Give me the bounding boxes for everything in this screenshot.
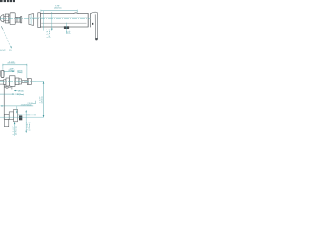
drop line below flange: [11, 86, 13, 89]
dim line 115: [3, 64, 27, 66]
body end rings: [88, 13, 90, 27]
small protrusion below right: [8, 86, 11, 87]
small collar: [4, 80, 7, 85]
second collar: [6, 78, 10, 86]
escutcheon front: [10, 76, 16, 87]
hex nut: [5, 14, 9, 23]
dim line 92: [4, 70, 14, 72]
svg-text:(200mm): (200mm): [54, 7, 62, 9]
svg-text:2 3/4"(70mm): 2 3/4"(70mm): [21, 104, 32, 106]
svg-text:(35mm): (35mm): [42, 96, 44, 103]
leader line to thread label: [2, 27, 12, 49]
centerline top drawing: [0, 18, 91, 20]
svg-text:(13mm): (13mm): [17, 72, 23, 74]
cup nut: [29, 14, 34, 26]
block leader dim: [65, 23, 67, 34]
leader start dark segment: [1, 26, 2, 29]
body front: [15, 78, 19, 85]
body inner light line: [29, 16, 87, 18]
body inner dark line: [41, 22, 86, 24]
svg-text:(38mm): (38mm): [16, 126, 18, 135]
handle tip: [95, 38, 98, 40]
r3: [14, 109, 18, 121]
vertical dim C between centerlines: [36, 80, 44, 82]
hook left bar emphasis: [0, 71, 2, 77]
mid piece: [19, 79, 22, 84]
small protrusion below left: [4, 86, 6, 87]
lever hook front: [1, 70, 4, 77]
lever handle: [91, 12, 98, 38]
label row A: [14, 90, 18, 92]
r2: [9, 112, 13, 120]
logo text top-left: [0, 0, 15, 2]
long teal line: [0, 116, 44, 118]
label row B: [0, 93, 14, 95]
svg-text:1 3/16"(30mm): 1 3/16"(30mm): [15, 94, 24, 96]
lower centerline: [18, 114, 37, 116]
collar: [9, 15, 10, 22]
cartridge dome bump: [73, 12, 78, 15]
wall flange: [10, 13, 15, 25]
centerline middle: [0, 80, 36, 82]
extension verticals through body: [42, 11, 44, 31]
svg-text:5/8"(16): 5/8"(16): [18, 90, 24, 92]
ext from label2 down: [16, 106, 18, 113]
union neck: [4, 17, 5, 21]
wall line: [3, 84, 5, 119]
svg-text:(115mm): (115mm): [8, 63, 16, 65]
vertical dim B: [25, 110, 27, 133]
teal tick in cup: [30, 15, 32, 24]
end cap: [27, 79, 31, 85]
handle pivot mark: [92, 23, 93, 25]
svg-text:15: 15: [9, 50, 12, 52]
vertical dim A lines below: [14, 122, 16, 136]
svg-text:(47mm): (47mm): [49, 29, 51, 38]
concealed box below wall: [4, 119, 8, 126]
label2 line: [1, 105, 34, 107]
top dimension line: [41, 10, 77, 12]
svg-text:(13): (13): [69, 30, 71, 34]
stub end cap: [21, 17, 22, 23]
mixer body: [40, 13, 88, 27]
under body block: [64, 26, 69, 29]
union dome: [0, 15, 3, 22]
left pipe: [0, 81, 4, 85]
small protrusion below: [6, 86, 8, 88]
stub pipe: [22, 81, 28, 83]
svg-text:(42mm): (42mm): [29, 122, 31, 130]
small leader segment: [32, 101, 36, 104]
svg-text:G 1/2: G 1/2: [0, 50, 6, 52]
body left ring: [38, 13, 41, 28]
stepped union section r1: [4, 115, 9, 120]
dark stub block: [19, 116, 22, 121]
threaded stub: [15, 17, 20, 22]
